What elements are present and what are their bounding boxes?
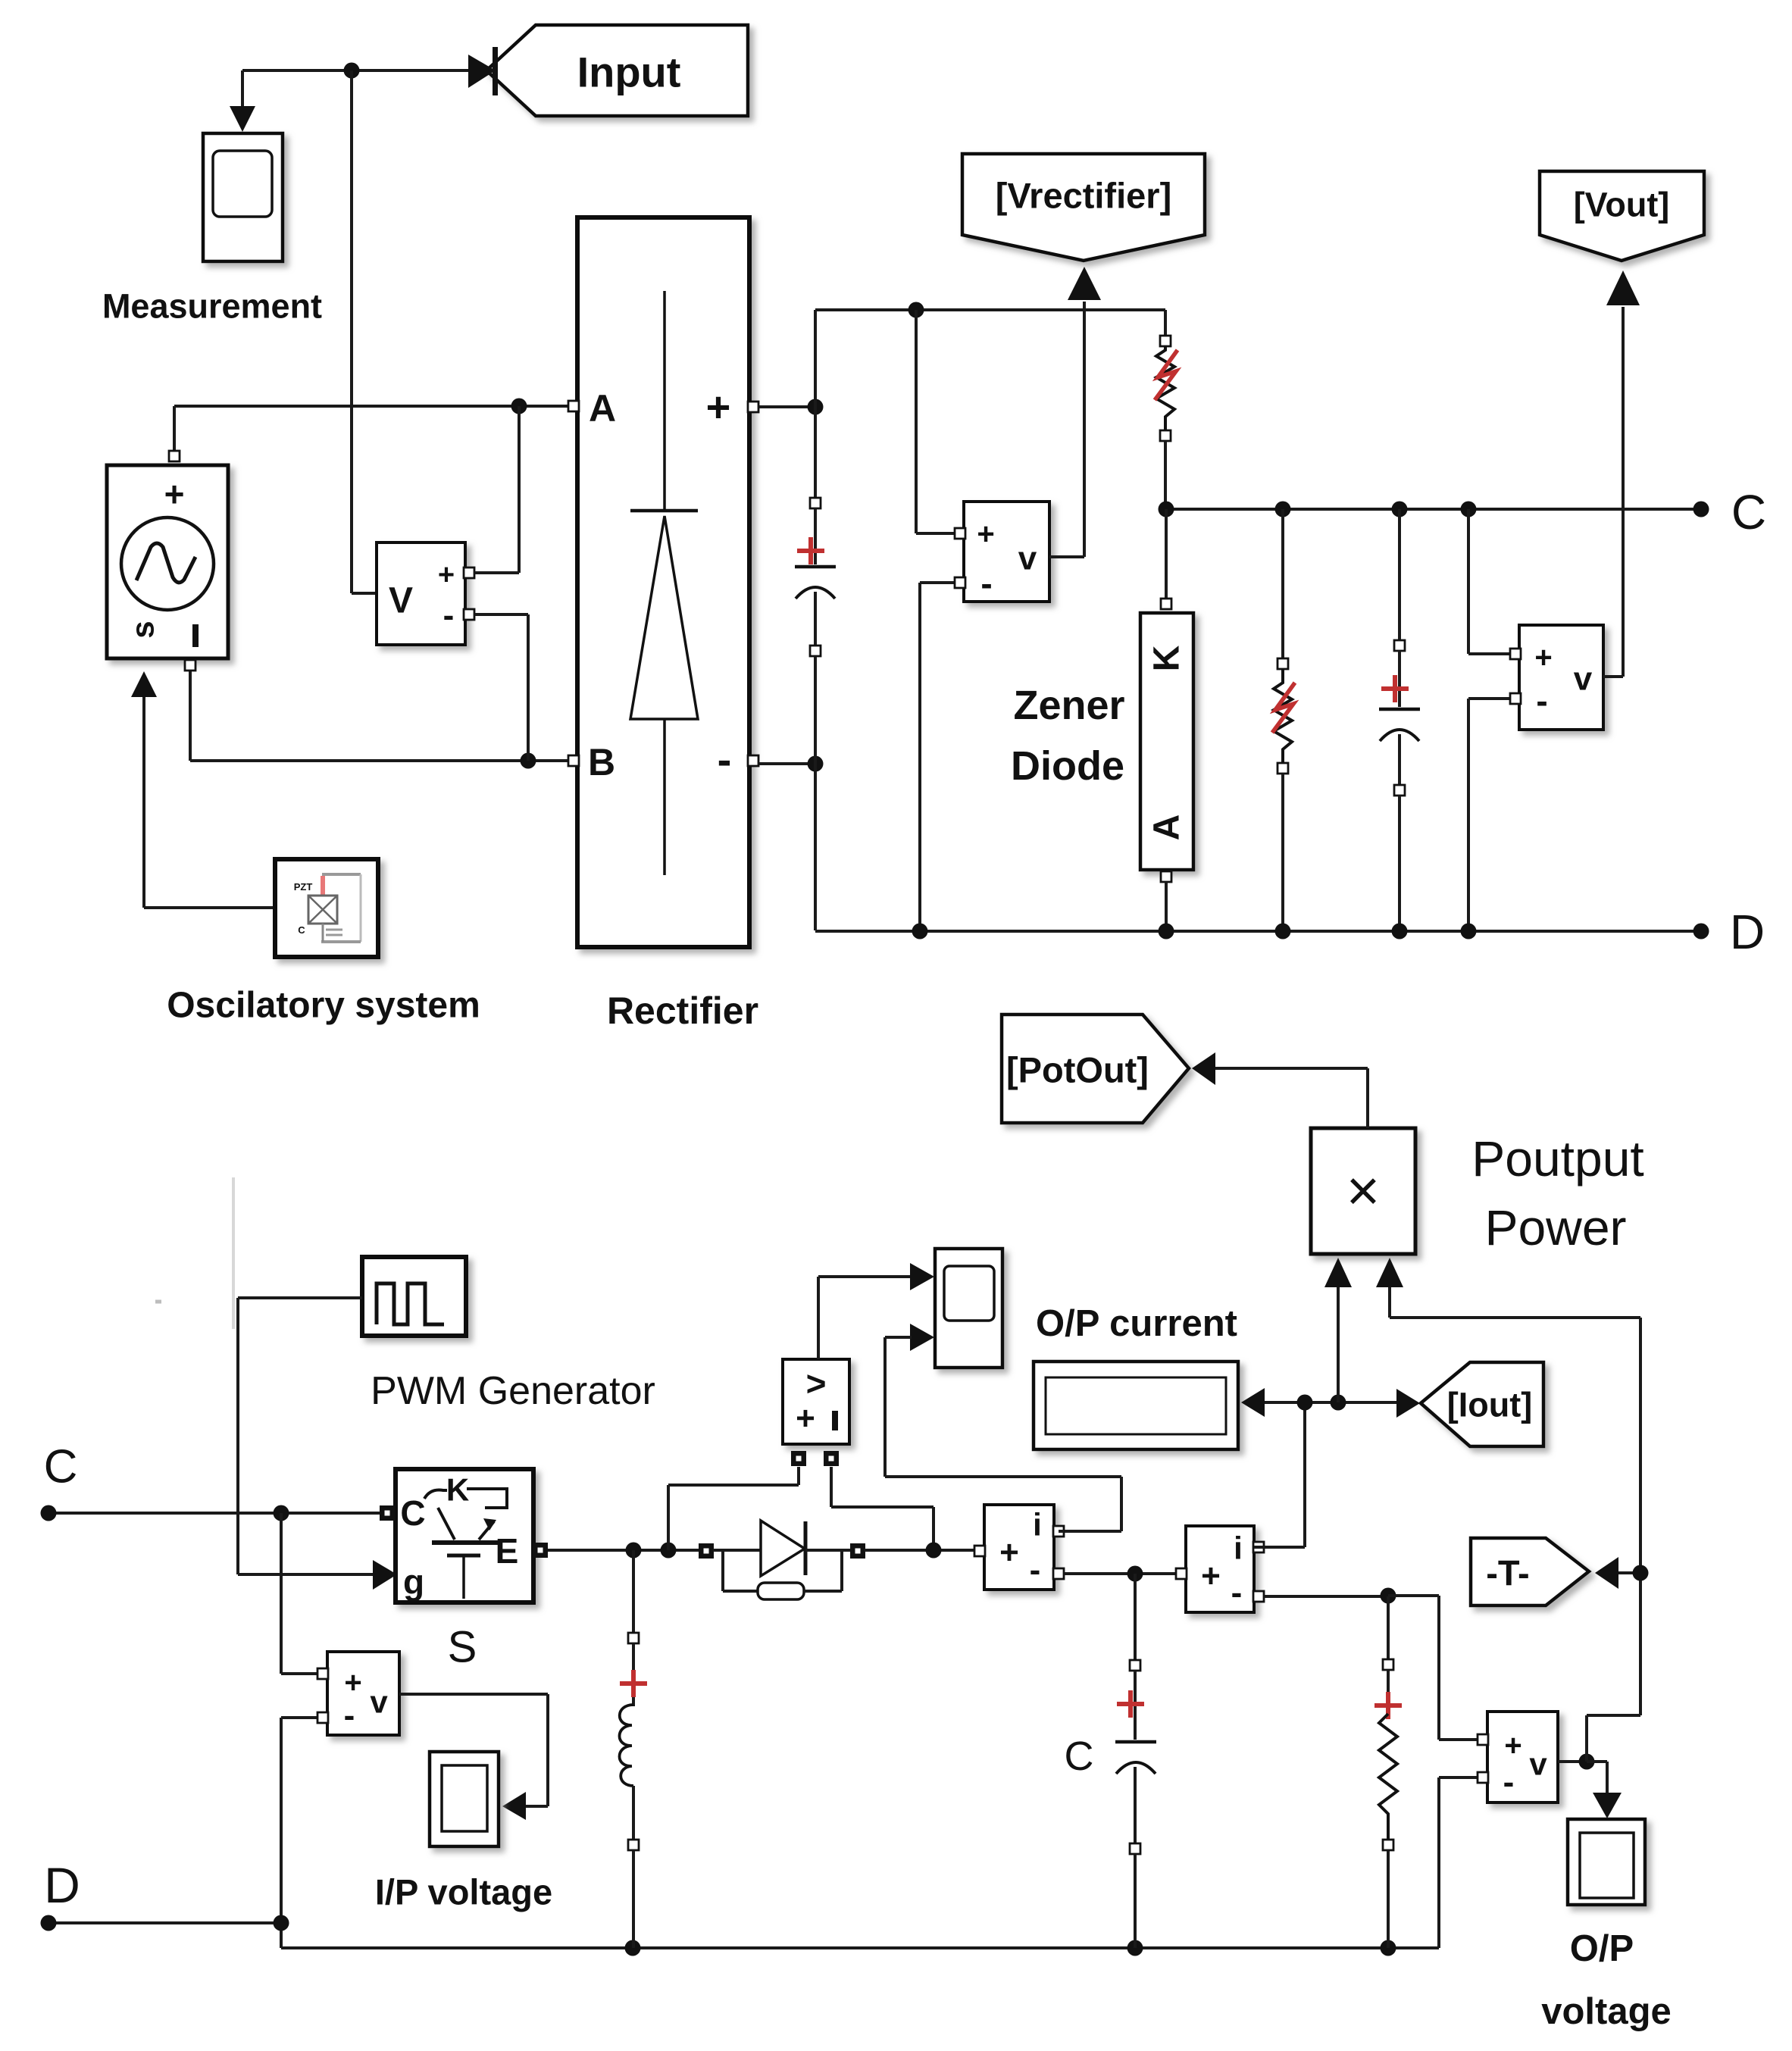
wire: node D horizontal line [815, 930, 1701, 933]
block I1 current measurement [974, 1505, 1064, 1590]
wire: V3 output up to Vout tag [1603, 307, 1623, 677]
node label D right [1730, 905, 1765, 959]
wire: bottom ground rail [281, 1777, 1478, 1948]
block PWM Generator [362, 1257, 655, 1413]
svg-text:+: + [796, 1400, 815, 1437]
svg-text:O/P: O/P [1570, 1928, 1634, 1969]
svg-text:+: + [1504, 1729, 1521, 1762]
block V5 voltage measurement output [1478, 1712, 1558, 1802]
node: junction on T riser [1633, 1565, 1649, 1581]
resistor R1 [1155, 336, 1177, 509]
capacitor C load [1065, 1574, 1157, 1948]
block V4 voltage measurement input [317, 1652, 399, 1735]
svg-text:-: - [1231, 1574, 1243, 1612]
svg-text:+: + [164, 474, 185, 514]
svg-text:i: i [1234, 1530, 1243, 1566]
scope I/P voltage [375, 1752, 552, 1912]
wire: D stub [48, 1921, 281, 1924]
wire: V2 plus riser [916, 310, 955, 533]
goto tag Iout [1396, 1362, 1543, 1446]
node: junction C wire to V4 [274, 1505, 289, 1521]
node: junction at load top [1381, 1588, 1396, 1604]
wire: input signal horizontal to Input tag [242, 69, 494, 72]
svg-text:voltage: voltage [1541, 1991, 1672, 2032]
transistor S IGBT block [380, 1469, 548, 1672]
inductor L1 [620, 1550, 648, 1948]
faint scan artifact line [155, 1177, 233, 1329]
node: junction to comparator [661, 1543, 677, 1559]
wire: V5 output down to O/P voltage scope [1587, 1762, 1622, 1818]
svg-text:C: C [1731, 485, 1766, 539]
svg-text:Poutput: Poutput [1471, 1130, 1644, 1187]
svg-text:+: + [999, 1534, 1019, 1571]
svg-text:v: v [370, 1684, 388, 1720]
svg-text:Power: Power [1484, 1199, 1626, 1255]
svg-text:Diode: Diode [1011, 743, 1124, 789]
zener diode block [1011, 509, 1193, 931]
wire: PWM output to IGBT gate [238, 1298, 397, 1590]
scope O/P current scope [910, 1249, 1002, 1368]
wire: node C horizontal line [1166, 508, 1701, 511]
svg-text:C: C [298, 924, 305, 936]
capacitor C2 [1379, 509, 1420, 931]
svg-text:×: × [1346, 1159, 1380, 1224]
wire: rectifier plus output [758, 405, 815, 408]
block V2 voltage measurement Vrectifier [955, 502, 1049, 603]
svg-text:D: D [44, 1857, 80, 1913]
svg-text:-: - [718, 736, 732, 783]
svg-text:i: i [1033, 1507, 1042, 1543]
svg-text:I/P voltage: I/P voltage [375, 1872, 552, 1912]
wire: vertical from junction down to V1 output [352, 70, 377, 593]
wire: load junction to V5 plus [1388, 1596, 1478, 1740]
svg-text:Zener: Zener [1013, 683, 1124, 728]
resistor R load [1374, 1596, 1402, 1948]
svg-text:Measurement: Measurement [102, 287, 322, 326]
block comparator voltage measurement over diode [783, 1359, 849, 1466]
node: junction V5 output [1579, 1754, 1595, 1770]
wire: V5 output riser to T tag line [1587, 1318, 1640, 1762]
scope Measurement [102, 133, 322, 326]
wire: riser junction to comparator left port [668, 1467, 799, 1550]
node: junction after diode [926, 1543, 942, 1559]
svg-text:Oscilatory system: Oscilatory system [167, 986, 480, 1026]
node: D line junctions [912, 924, 1709, 940]
svg-text:PZT: PZT [294, 881, 313, 893]
wire: product input 2 from T riser [1390, 1287, 1640, 1318]
svg-text:+: + [977, 517, 994, 551]
svg-text:-T-: -T- [1486, 1553, 1529, 1593]
svg-text:Input: Input [577, 48, 681, 96]
node: junction D stub on V4 minus riser [274, 1915, 289, 1931]
goto tag PotOut [1002, 1015, 1215, 1123]
node: junction B wire to V1 minus [521, 753, 536, 769]
node label C right [1731, 485, 1766, 539]
node: junction at C1 top [808, 399, 824, 415]
block I2 current measurement [1176, 1526, 1264, 1612]
wire: oscillatory system to source s input [131, 671, 277, 908]
goto tag Vrectifier [962, 154, 1205, 300]
block V3 voltage measurement Vout [1468, 509, 1603, 931]
snubber RC loop [723, 1550, 842, 1599]
wire: V4 output loop to I/P voltage scope [399, 1694, 548, 1820]
wire: V2 output up to Vrectifier tag [1049, 302, 1084, 557]
source AC voltage source [107, 451, 228, 671]
svg-text:-: - [1503, 1764, 1515, 1801]
wire: I2 current output riser to Iout line [1254, 1402, 1305, 1547]
node: rail junctions [625, 1940, 1396, 1956]
svg-text:[Vout]: [Vout] [1574, 186, 1670, 224]
node: C line junctions [1159, 502, 1709, 517]
svg-text:[Iout]: [Iout] [1447, 1386, 1532, 1424]
node label D left [44, 1857, 80, 1913]
goto tag Input [468, 25, 748, 116]
node: D stub end dot [41, 1915, 57, 1931]
node: junction to inductor [626, 1543, 642, 1559]
wire: junction down to V4 plus [281, 1513, 317, 1674]
node: junction A wire to V1 plus [511, 399, 527, 414]
capacitor C1 [795, 407, 836, 930]
wire: V1 plus to A wire [474, 406, 519, 573]
wire: V5 output [1558, 1760, 1587, 1763]
block Oscilatory system [167, 859, 480, 1026]
svg-text:-: - [1030, 1552, 1041, 1589]
wire: product output to PotOut tag [1215, 1068, 1368, 1128]
goto tag T [1471, 1538, 1640, 1605]
svg-text:+: + [344, 1666, 361, 1699]
wire: down to Measurement scope [230, 70, 255, 132]
wire: emitter output wire [548, 1549, 701, 1552]
node: C stub end dot [41, 1505, 57, 1521]
wire: product input 1 riser [1337, 1287, 1340, 1402]
svg-text:C: C [44, 1441, 78, 1493]
block V1 voltage measurement [377, 542, 474, 645]
svg-text:PWM Generator: PWM Generator [371, 1369, 655, 1413]
node: junction on top wire to V2 plus [909, 302, 924, 318]
svg-text:v: v [1529, 1746, 1547, 1782]
svg-text:B: B [588, 741, 615, 783]
wire: V2 minus down to D line [920, 583, 955, 931]
node label C left [44, 1441, 78, 1493]
svg-text:+: + [1534, 641, 1552, 674]
svg-text:v: v [1574, 661, 1593, 698]
svg-text:C: C [400, 1493, 425, 1533]
wire: I1 current output to scope riser [1059, 1530, 1064, 1533]
svg-text:K: K [446, 1472, 469, 1508]
wire: riser to Vrectifier measurement feed [815, 310, 1165, 407]
wire: V1 minus to B wire [474, 614, 528, 761]
svg-text:s: s [125, 621, 161, 638]
wire: C stub into IGBT collector [48, 1512, 383, 1515]
svg-text:A: A [1147, 814, 1187, 841]
svg-text:-: - [344, 1697, 355, 1734]
svg-text:O/P current: O/P current [1036, 1303, 1237, 1344]
svg-text:>: > [806, 1364, 827, 1403]
wire: V4 minus down to D rail [281, 1718, 317, 1948]
wire: I2 minus to load junction [1264, 1595, 1388, 1598]
block Rectifier [568, 217, 758, 1032]
svg-text:[PotOut]: [PotOut] [1006, 1050, 1149, 1090]
svg-text:[Vrectifier]: [Vrectifier] [996, 176, 1171, 216]
wire: A node horizontal [174, 406, 572, 455]
node: junction on input wire [344, 63, 360, 79]
goto tag Vout [1540, 171, 1704, 305]
svg-text:-: - [980, 564, 992, 603]
wire: comparator output to scope input 1 [818, 1263, 934, 1359]
svg-text:V: V [389, 581, 413, 621]
wire: B node horizontal [190, 665, 572, 761]
wire: I1 minus to I2 plus [1064, 1572, 1176, 1575]
svg-text:+: + [1201, 1558, 1221, 1595]
svg-text:g: g [403, 1562, 424, 1602]
svg-text:v: v [1018, 540, 1037, 577]
svg-text:+: + [706, 383, 731, 431]
block product Poutput Power [1311, 1128, 1644, 1287]
diode D1 with snubber [699, 1521, 974, 1576]
svg-text:S: S [448, 1623, 477, 1672]
svg-text:E: E [496, 1531, 519, 1571]
wire: rectifier minus output [758, 762, 815, 765]
svg-text:K: K [1147, 645, 1187, 671]
svg-text:+: + [438, 559, 455, 591]
svg-text:C: C [1065, 1734, 1094, 1779]
wire: comparator right port down to diode cathode [831, 1467, 934, 1550]
resistor R2 [1272, 509, 1295, 931]
svg-text:A: A [589, 387, 616, 430]
node: junction to capacitor C [1127, 1566, 1143, 1582]
wire: scope input 2 from I1 current output [885, 1337, 1121, 1531]
node: junction C1 line with rectifier minus [808, 756, 824, 772]
svg-text:-: - [1536, 681, 1547, 721]
display block O/P current [1034, 1303, 1265, 1449]
svg-text:D: D [1730, 905, 1765, 959]
svg-text:-: - [443, 597, 455, 634]
node: Iout line junctions [1297, 1395, 1346, 1411]
scope O/P voltage [1541, 1819, 1672, 2032]
svg-text:Rectifier: Rectifier [607, 990, 758, 1032]
wire: Iout horizontal line [1265, 1401, 1396, 1404]
